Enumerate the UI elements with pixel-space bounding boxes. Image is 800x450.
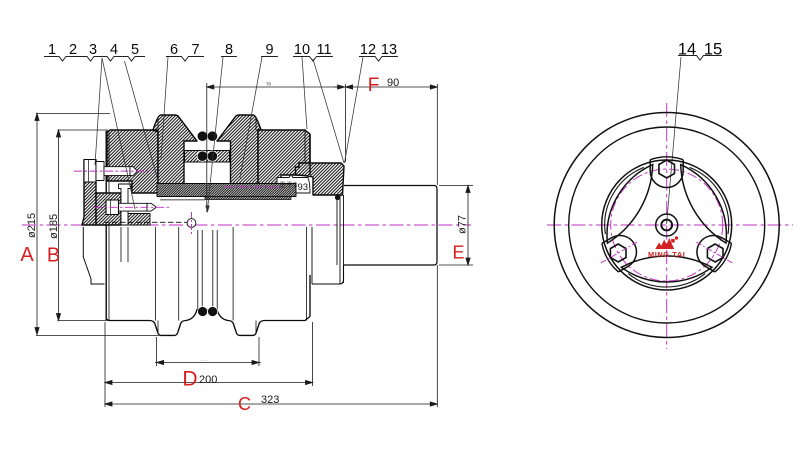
svg-text:70: 70 [266, 82, 272, 87]
svg-text:93: 93 [298, 182, 309, 193]
svg-text:13: 13 [381, 42, 397, 58]
svg-text:. . .: . . . [201, 357, 207, 362]
svg-text:C: C [238, 394, 251, 414]
svg-text:10: 10 [294, 42, 310, 58]
svg-text:200: 200 [199, 374, 217, 386]
svg-text:6: 6 [170, 42, 178, 58]
svg-text:F: F [368, 75, 380, 96]
svg-text:90: 90 [387, 77, 399, 89]
svg-text:11: 11 [316, 42, 331, 58]
svg-text:D: D [182, 368, 197, 391]
svg-text:7: 7 [191, 42, 199, 58]
svg-text:ø215: ø215 [26, 213, 38, 238]
svg-text:12: 12 [360, 42, 376, 58]
svg-text:A: A [20, 244, 34, 266]
svg-text:4: 4 [110, 42, 118, 58]
svg-text:MING TAI: MING TAI [648, 250, 686, 259]
svg-text:B: B [47, 245, 60, 267]
svg-text:E: E [452, 243, 464, 263]
svg-text:3: 3 [89, 42, 97, 58]
svg-text:ø185: ø185 [48, 214, 60, 239]
svg-text:9: 9 [265, 42, 273, 58]
svg-text:323: 323 [261, 394, 279, 406]
svg-text:1: 1 [48, 42, 56, 58]
svg-text:2: 2 [69, 42, 77, 58]
svg-text:5: 5 [131, 42, 139, 58]
svg-text:8: 8 [225, 42, 233, 58]
svg-text:ø77: ø77 [457, 215, 469, 234]
